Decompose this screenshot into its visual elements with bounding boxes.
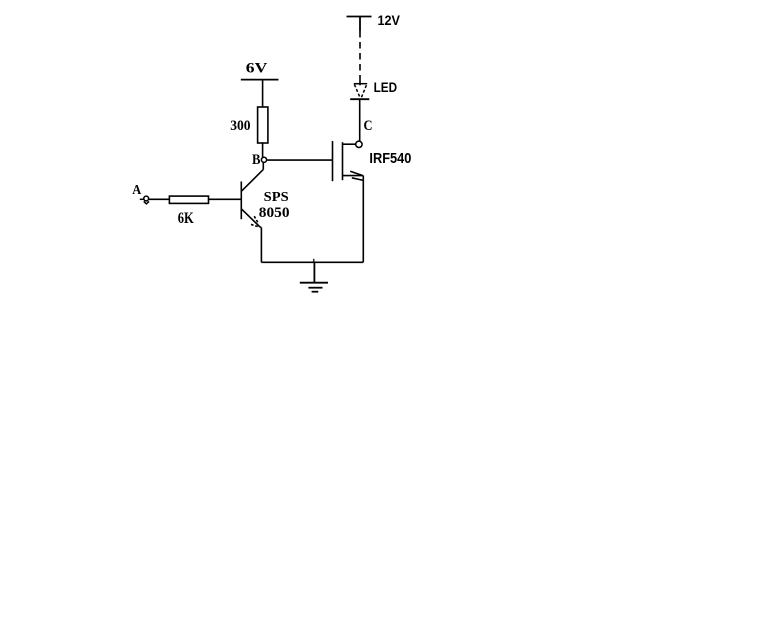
svg-text:IRF540: IRF540 xyxy=(369,150,411,167)
resistor R1 300 xyxy=(258,107,268,143)
ground xyxy=(300,259,328,292)
wire dashed 12V to LED anode xyxy=(359,31,361,77)
svg-text:6K: 6K xyxy=(178,210,194,227)
power +12V supply bar xyxy=(347,17,372,32)
wire resistor 6K to base xyxy=(209,198,242,200)
wire LED cathode to node C xyxy=(359,99,361,141)
transistor Q2 IRF540 N-MOSFET xyxy=(333,141,364,181)
wire node A to resistor 6K xyxy=(149,198,170,200)
svg-text:LED: LED xyxy=(374,79,398,95)
svg-text:6V: 6V xyxy=(246,60,268,76)
wire ground rail (bottom) xyxy=(261,261,363,263)
wire node B to MOSFET gate xyxy=(267,159,332,161)
resistor R2 6K xyxy=(169,196,208,203)
svg-text:C: C xyxy=(364,118,373,134)
node C terminal circle (MOSFET drain) xyxy=(356,141,362,147)
node B circle xyxy=(261,157,266,162)
node A terminal xyxy=(140,196,149,204)
svg-text:SPS: SPS xyxy=(264,190,289,205)
wire MOSFET source to ground rail xyxy=(362,176,364,263)
svg-text:12V: 12V xyxy=(378,12,401,28)
svg-text:8050: 8050 xyxy=(259,205,290,221)
wire 6V to resistor 300 xyxy=(262,80,264,107)
wire node B to collector xyxy=(262,162,264,169)
transistor Q1 SPS8050 NPN xyxy=(241,170,263,228)
svg-text:B: B xyxy=(252,152,261,168)
svg-text:A: A xyxy=(132,183,142,198)
svg-text:300: 300 xyxy=(230,118,250,134)
wire resistor 300 to node B xyxy=(262,143,264,157)
power 6V supply bar xyxy=(241,79,279,81)
wire emitter to ground rail xyxy=(260,228,262,263)
LED D1 symbol xyxy=(350,84,369,100)
